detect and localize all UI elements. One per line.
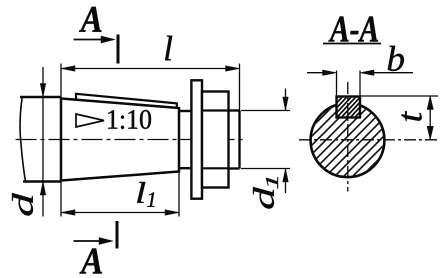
t extension top (361, 95, 438, 97)
section label A-A (329, 17, 379, 42)
key on taper (76, 94, 177, 108)
label l (165, 36, 172, 61)
neck top edge (179, 110, 191, 112)
thread end bottom edge (229, 167, 240, 169)
dimension l line (61, 68, 240, 70)
label l1 (137, 182, 145, 203)
dimension l1 right arrow (165, 210, 179, 216)
centerline axis of shaft (16, 139, 247, 141)
d1 stem top (285, 89, 287, 111)
d1 arrow bottom (283, 169, 289, 183)
b extension left (336, 71, 338, 98)
b left arrow (323, 70, 337, 76)
taper end face (178, 107, 181, 173)
step / extension line at taper start (60, 64, 62, 217)
section tick bottom (116, 221, 119, 249)
t arrow up (427, 96, 433, 110)
circle hatch (254, 100, 438, 185)
circle vertical centerline (347, 82, 349, 192)
keyway (key cross-section) (337, 97, 361, 118)
neck bottom edge (179, 167, 191, 169)
label d1 (253, 187, 274, 209)
section arrow top (74, 39, 107, 41)
taper symbol triangle (76, 114, 104, 127)
label d (12, 193, 33, 216)
dimension l1 line (61, 212, 179, 214)
label A top (79, 7, 102, 32)
shaft body top edge (20, 96, 61, 99)
break line (20, 97, 25, 182)
nut (202, 92, 229, 188)
extension line at shaft end (239, 64, 241, 111)
dimension b left segment (307, 72, 328, 74)
nut chamfer line top (202, 109, 229, 111)
label b (388, 46, 404, 71)
b right arrow (360, 70, 374, 76)
label t (402, 111, 422, 121)
dimension d line (42, 67, 44, 217)
label A bottom (80, 249, 103, 274)
t dimension line (429, 96, 431, 140)
t arrow down (427, 126, 433, 140)
section circle (311, 103, 385, 177)
b extension right (359, 71, 361, 98)
nut chamfer line bottom (202, 167, 229, 169)
d1 stem bottom (285, 169, 287, 194)
section arrow bottom (74, 240, 105, 242)
section tick top (117, 35, 120, 64)
d1 arrow top (283, 97, 289, 111)
washer (191, 80, 202, 198)
shaft body bottom edge (23, 180, 61, 183)
taper value 1:10 (108, 110, 151, 129)
taper top edge (61, 99, 179, 109)
thread end top edge (229, 109, 240, 111)
dimension l1 left arrow (61, 210, 75, 216)
thread end face (238, 111, 240, 169)
dimension d arrow bottom (40, 182, 46, 196)
dimension b right segment (368, 72, 413, 74)
A-A underline (323, 43, 381, 45)
circle horizontal centerline (299, 139, 438, 141)
extension line at taper end (178, 173, 180, 217)
d1 extension top (241, 110, 290, 112)
dimension l right arrow (226, 66, 240, 72)
taper bottom edge (61, 172, 179, 181)
dimension l left arrow (61, 66, 75, 72)
dimension d arrow top (40, 84, 46, 98)
d1 extension bottom (241, 168, 290, 170)
